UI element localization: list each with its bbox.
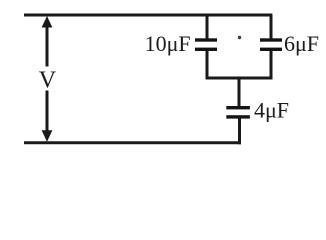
wire box left edge lower (10uF bottom plate to box bottom) xyxy=(206,51,209,80)
wire box right edge upper (to 6uF top plate) xyxy=(270,15,273,39)
svg-text:10μF: 10μF xyxy=(145,31,191,56)
wire box right edge lower (6uF bottom plate to box bottom) xyxy=(270,51,273,80)
arrowhead up of V measurement arrow xyxy=(42,16,53,28)
capacitor C2 6uF plates xyxy=(260,38,282,51)
arrowhead down of V measurement arrow xyxy=(42,130,53,142)
wire middle branch upper (box bottom to 4uF top plate) xyxy=(238,78,241,107)
wire middle branch lower (4uF bottom plate to bottom rail) xyxy=(238,118,241,144)
wire V arrow shaft lower xyxy=(46,91,49,135)
wire box left edge upper (to 10uF top plate) xyxy=(206,15,209,39)
capacitor C1 10uF plates xyxy=(195,38,217,51)
svg-text:6μF: 6μF xyxy=(284,31,319,56)
wire top rail xyxy=(24,14,272,17)
capacitor C3 4uF plates xyxy=(226,106,250,119)
svg-text:V: V xyxy=(39,67,57,93)
node dot inside parallel box xyxy=(238,36,241,39)
wire V arrow shaft upper xyxy=(46,24,49,67)
wire bottom rail xyxy=(24,141,241,144)
svg-text:4μF: 4μF xyxy=(254,98,289,123)
wire box bottom edge xyxy=(206,77,273,80)
